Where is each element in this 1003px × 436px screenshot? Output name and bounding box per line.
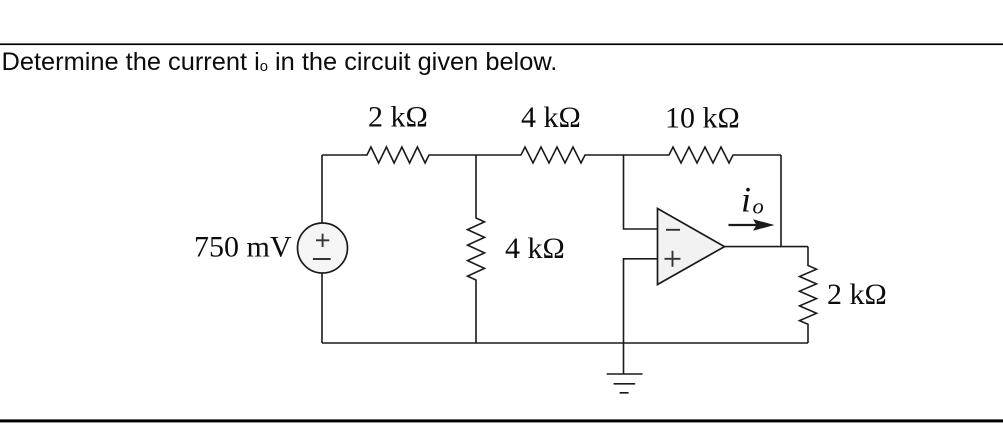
svg-text:4 kΩ: 4 kΩ	[521, 101, 581, 134]
svg-text:2 kΩ: 2 kΩ	[827, 278, 887, 311]
svg-text:2 kΩ: 2 kΩ	[368, 101, 428, 134]
svg-text:750 mV: 750 mV	[194, 231, 292, 264]
svg-text:10 kΩ: 10 kΩ	[665, 102, 740, 135]
svg-text:o: o	[753, 194, 764, 219]
svg-text:4 kΩ: 4 kΩ	[505, 232, 565, 265]
svg-text:i: i	[741, 180, 751, 220]
svg-text:Determine the current io in th: Determine the current io in the circuit …	[2, 48, 558, 76]
